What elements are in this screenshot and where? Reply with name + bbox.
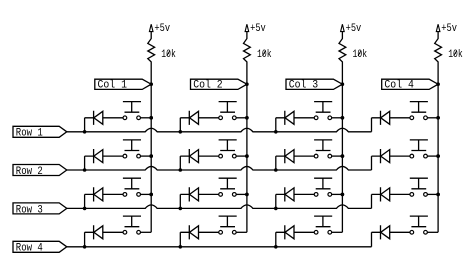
svg-text:10k: 10k — [353, 49, 368, 61]
svg-text:Col 4: Col 4 — [384, 80, 414, 92]
svg-text:10k: 10k — [161, 49, 176, 61]
svg-text:+5v: +5v — [441, 23, 457, 35]
svg-text:+5v: +5v — [154, 23, 170, 35]
svg-text:10k: 10k — [448, 49, 463, 61]
svg-text:Row 3: Row 3 — [16, 204, 43, 216]
svg-text:Col 3: Col 3 — [289, 80, 319, 92]
svg-text:Col 1: Col 1 — [98, 80, 128, 92]
svg-text:Row 1: Row 1 — [16, 128, 43, 140]
svg-text:Row 2: Row 2 — [16, 166, 43, 178]
svg-text:+5v: +5v — [346, 23, 362, 35]
svg-text:Row 4: Row 4 — [16, 243, 43, 255]
svg-text:10k: 10k — [257, 49, 272, 61]
svg-text:Col 2: Col 2 — [193, 80, 223, 92]
svg-text:+5v: +5v — [250, 23, 266, 35]
